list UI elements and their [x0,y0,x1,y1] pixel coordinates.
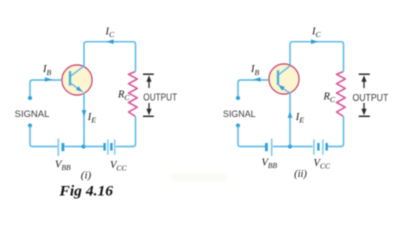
node: emitter junction dot (i) [81,144,85,148]
wire: V_BB to V_CC [64,146,104,148]
svg-text:VBB: VBB [262,158,278,170]
output annotation bottom bar (i) [143,115,154,117]
output annotation top bar (i) [143,73,154,75]
current arrow I_E (i) [82,110,87,117]
transistor Q2 (PNP) body circle [269,64,299,94]
battery V_BB (i) positive plate [57,139,59,157]
transistor Q1 collector lead [71,66,84,76]
battery V_BB (i) negative plate [62,143,65,151]
node: signal terminal bottom dot [28,124,32,128]
wire: SIGNAL top to base of Q1 [30,80,70,98]
svg-text:(ii): (ii) [294,169,307,180]
wire: SIGNAL bottom to battery V_BB (ii) [238,126,265,147]
battery V_CC (ii) plate 1 (positive tall) [313,140,315,155]
battery V_CC (ii) plate 3 (positive tall) [322,140,324,155]
current arrow I_C (ii) [311,39,318,44]
svg-text:RC: RC [323,92,336,105]
node: signal terminal top dot [28,96,32,100]
resistor R_C (ii) zigzag [337,72,346,117]
transistor Q2 base bar [277,70,280,85]
current arrow I_C (i) [106,39,113,44]
current arrow I_B (ii) [253,77,260,82]
svg-text:IE: IE [295,112,305,125]
wire: V_BB to V_CC (ii) [273,146,313,148]
output annotation down arrow (ii) [363,103,365,112]
node: signal terminal bottom dot (ii) [236,124,240,128]
wire: emitter of Q2 to bottom rail [289,93,291,147]
resistor R_C (i) zigzag [129,72,138,117]
wire: emitter of Q1 to bottom rail [83,92,85,146]
wire: V_CC to resistor branch bottom [116,117,136,147]
output annotation down arrow (i) [148,103,150,112]
battery V_CC (i) plate 2 (positive tall) [107,140,109,155]
svg-text:VCC: VCC [314,158,331,170]
output annotation up arrow (ii) [363,79,365,88]
svg-text:IC: IC [311,27,322,40]
battery V_BB (ii) negative plate (short, left) [265,143,268,151]
output annotation top bar (ii) [359,73,370,75]
battery V_CC (i) plate 3 (negative short) [110,143,112,151]
transistor Q1 emitter lead with NPN arrow [71,83,78,88]
svg-text:SIGNAL: SIGNAL [15,109,50,120]
battery V_CC (ii) plate 4 (negative short) [326,143,328,151]
svg-text:(i): (i) [81,171,92,182]
svg-text:VCC: VCC [110,160,127,172]
wire: SIGNAL bottom to battery V_BB [30,126,57,147]
svg-text:Fig 4.16: Fig 4.16 [58,184,113,200]
faint scan smudge [170,174,228,181]
svg-text:RC: RC [117,90,130,103]
battery V_CC (ii) plate 2 (negative short) [317,143,319,151]
current arrow I_E (ii) [288,111,293,118]
transistor Q2 emitter lead with PNP arrow [283,88,291,93]
battery V_CC (i) plate 4 (positive tall) [114,140,116,155]
current arrow I_B (i) [45,77,52,82]
svg-text:OUTPUT: OUTPUT [143,93,177,104]
transistor Q1 (NPN) body circle [62,65,92,95]
output annotation up arrow (i) [148,79,150,88]
output annotation bottom bar (ii) [359,115,370,117]
battery V_CC (i) plate 1 (negative short) [103,143,105,151]
svg-text:VBB: VBB [55,160,71,172]
battery V_BB (ii) positive plate (tall, right) [271,139,273,157]
svg-text:IB: IB [250,64,260,77]
wire: SIGNAL top to base of Q2 [238,80,278,98]
wire: V_CC to resistor branch bottom (ii) [328,117,344,147]
svg-text:IC: IC [105,27,116,40]
svg-text:IE: IE [87,112,97,125]
node: signal terminal top dot (ii) [236,96,240,100]
node: emitter junction dot (ii) [288,144,292,148]
svg-text:IB: IB [42,64,52,77]
wire: collector loop top (ii) [290,42,344,72]
transistor Q2 collector lead [279,66,291,75]
svg-text:SIGNAL: SIGNAL [223,109,256,120]
wire: collector loop top (i) [84,42,136,72]
svg-text:OUTPUT: OUTPUT [353,93,389,104]
transistor Q1 base bar [69,71,72,86]
